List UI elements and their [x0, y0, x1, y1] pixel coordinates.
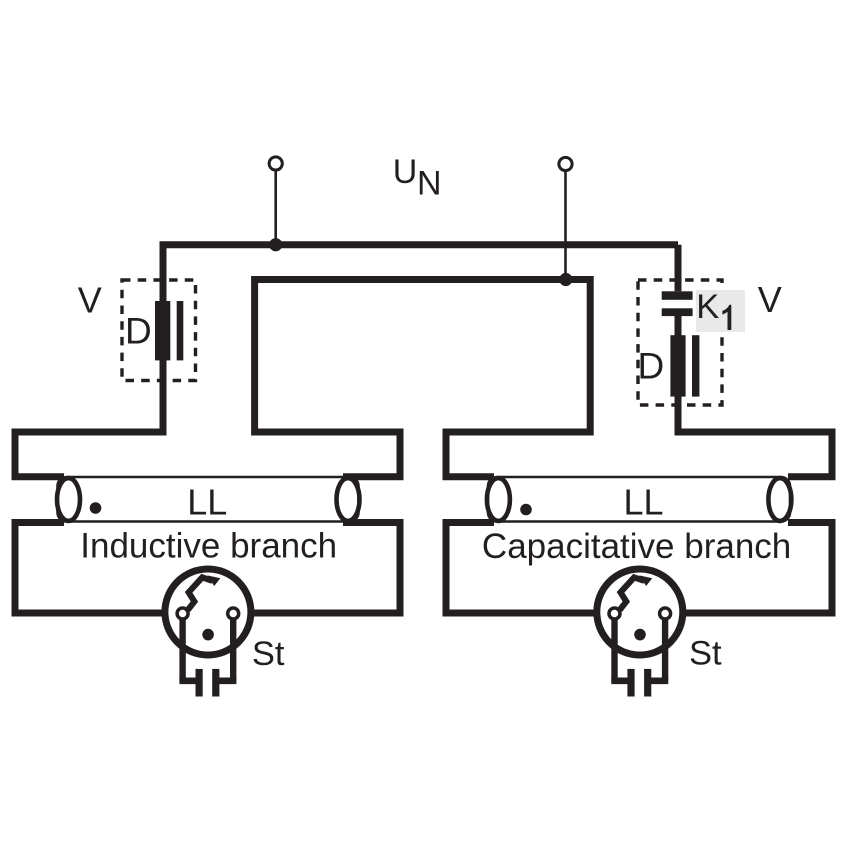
svg-text:LL: LL: [623, 482, 663, 523]
svg-text:D: D: [638, 346, 665, 387]
svg-text:St: St: [252, 635, 285, 673]
svg-text:D: D: [125, 310, 152, 351]
svg-text:Inductive branch: Inductive branch: [80, 527, 337, 566]
svg-text:Capacitative branch: Capacitative branch: [482, 527, 791, 566]
svg-text:St: St: [689, 635, 722, 673]
svg-text:LL: LL: [187, 482, 227, 523]
svg-text:V: V: [78, 279, 102, 320]
svg-text:K: K: [696, 288, 719, 326]
svg-text:V: V: [758, 279, 782, 320]
svg-text:U: U: [393, 153, 418, 191]
svg-text:N: N: [417, 165, 442, 203]
